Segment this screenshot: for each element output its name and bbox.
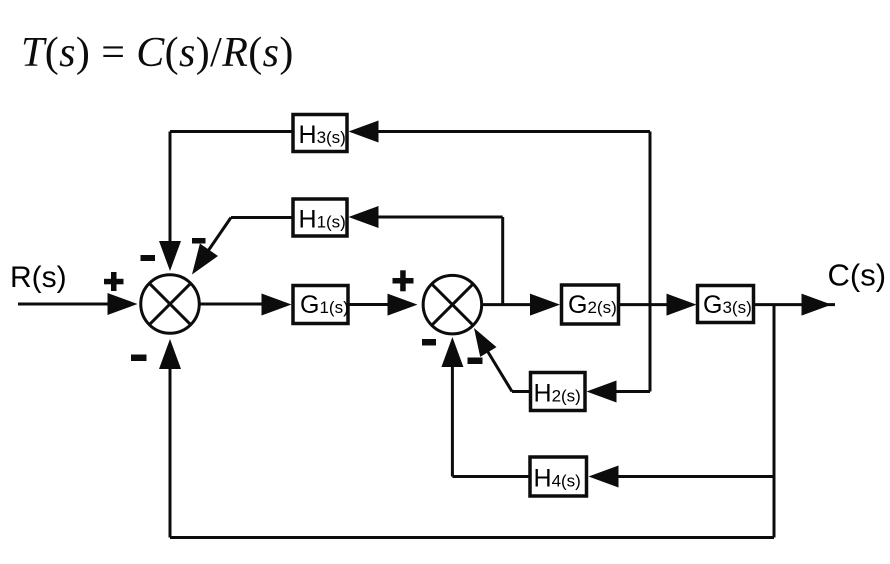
svg-text:H4(s): H4(s) — [534, 465, 581, 493]
svg-text:H3(s): H3(s) — [299, 121, 346, 149]
svg-text:G1(s): G1(s) — [300, 291, 349, 319]
svg-text:G2(s): G2(s) — [568, 291, 617, 319]
svg-text:T(s) = C(s)/R(s): T(s) = C(s)/R(s) — [21, 30, 294, 76]
svg-text:R(s): R(s) — [10, 261, 67, 294]
svg-text:H2(s): H2(s) — [534, 380, 581, 408]
svg-text:G3(s): G3(s) — [703, 291, 752, 319]
svg-text:C(s): C(s) — [828, 258, 887, 293]
svg-text:H1(s): H1(s) — [299, 206, 346, 234]
